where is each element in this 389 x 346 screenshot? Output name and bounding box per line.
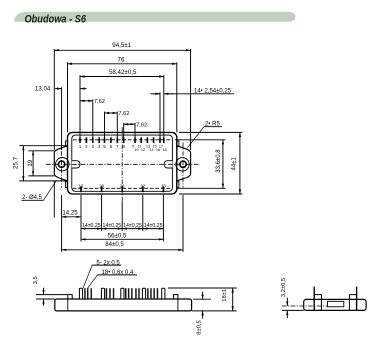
dim 94,5±1 (54, 49, 190, 51)
front wide pins (5x 2x0,5) (79, 288, 164, 299)
side centerline (282, 305, 328, 307)
dim 13,04 (55, 88, 62, 90)
horizontal centerline (46, 163, 199, 165)
right mounting ear (177, 146, 191, 181)
svg-text:3: 3 (92, 144, 95, 149)
dim 7,62 a (80, 100, 93, 102)
svg-text:84±0,5: 84±0,5 (105, 241, 124, 248)
dim 33,6±0,8 (222, 140, 224, 189)
pin numbers 9-18 (132, 144, 167, 152)
dim 25,7 (22, 146, 24, 181)
svg-text:20: 20 (99, 183, 104, 188)
svg-text:7: 7 (116, 144, 119, 149)
lid right key notch (164, 161, 172, 168)
side pin left (313, 287, 315, 311)
dim 44±1 (239, 132, 241, 194)
side recess (328, 301, 344, 307)
right side latch bottom (177, 182, 179, 188)
svg-text:7,62: 7,62 (136, 122, 147, 128)
dim 3,5 (36, 294, 67, 296)
extension lines bottom (54, 181, 183, 252)
pin numbers 1-8 (79, 144, 126, 149)
lid left key notch (72, 161, 80, 168)
left side latch top (65, 141, 67, 147)
top pin ticks (pins 1-18) (80, 137, 164, 143)
bottom pin row hidden line (73, 187, 172, 189)
svg-text:2: 2 (85, 144, 88, 149)
dim 14- 2,54±0,25 (151, 93, 161, 95)
left boss circle (56, 158, 69, 171)
left mounting hole (58, 161, 64, 167)
dim 19 (32, 151, 34, 176)
svg-text:8: 8 (123, 144, 126, 149)
svg-text:14: 14 (149, 148, 153, 152)
dim 56±0,5 (81, 238, 163, 240)
dim 7,62 c (124, 123, 135, 125)
dim 58,42±0,5 (80, 76, 164, 78)
right mounting hole (180, 161, 186, 167)
svg-text:14±0,25: 14±0,25 (82, 223, 101, 229)
svg-text:23: 23 (161, 183, 166, 188)
dim 14,25 (62, 216, 81, 218)
left side latch bottom (65, 182, 67, 188)
svg-text:13,04: 13,04 (35, 86, 51, 93)
svg-text:14• 2,54±0,25: 14• 2,54±0,25 (194, 88, 232, 94)
dim 3,2±0,5 (282, 309, 304, 311)
svg-text:58,42±0,5: 58,42±0,5 (109, 69, 137, 76)
right hole centerline (182, 143, 184, 188)
svg-text:7,62: 7,62 (94, 99, 105, 105)
svg-text:18: 18 (162, 148, 166, 152)
dim 7,62 b (105, 112, 118, 114)
svg-text:1: 1 (79, 144, 82, 149)
front view flange lines (67, 299, 69, 311)
svg-text:94,5±1: 94,5±1 (112, 42, 131, 49)
front left boss (68, 295, 72, 299)
svg-text:44±1: 44±1 (231, 156, 237, 170)
dim 84±0,5 (62, 249, 183, 251)
svg-text:19: 19 (27, 159, 34, 166)
svg-text:14±0,25: 14±0,25 (144, 223, 163, 229)
pin numbers 19-23 (79, 183, 167, 188)
svg-text:18±1: 18±1 (222, 289, 228, 302)
svg-text:4: 4 (98, 144, 101, 149)
extension lines left (19, 146, 67, 181)
svg-text:Obudowa - S6: Obudowa - S6 (25, 14, 87, 26)
left mounting ear (54, 146, 67, 181)
extension lines top (54, 49, 190, 150)
svg-text:22: 22 (140, 183, 145, 188)
svg-text:33,6±0,8: 33,6±0,8 (216, 149, 222, 173)
svg-text:10: 10 (134, 148, 138, 152)
svg-text:5: 5 (103, 144, 106, 149)
svg-text:8±0,5: 8±0,5 (197, 320, 203, 334)
lid step outline (72, 135, 173, 191)
svg-text:25,7: 25,7 (13, 156, 20, 169)
front view body (55, 299, 192, 311)
svg-text:14,25: 14,25 (62, 210, 78, 217)
svg-text:12: 12 (141, 148, 145, 152)
svg-text:76: 76 (118, 56, 125, 63)
right boss circle (176, 158, 189, 171)
svg-text:3,2±0,5: 3,2±0,5 (281, 278, 287, 297)
svg-text:56±0,5: 56±0,5 (108, 232, 127, 239)
header bar (14, 12, 295, 22)
right side latch top (177, 141, 179, 147)
side pin right (356, 287, 358, 311)
svg-text:16: 16 (156, 148, 160, 152)
svg-text:19: 19 (79, 183, 84, 188)
front right boss (174, 295, 178, 299)
top pin row hidden line (73, 139, 172, 141)
svg-text:3,5: 3,5 (33, 276, 39, 284)
front narrow pins (18x 0,6x0,4) (84, 288, 158, 299)
dim chain 14±0,25 x4 (81, 223, 163, 230)
side right boss (349, 294, 356, 296)
vertical centerline (121, 127, 123, 201)
bottom pin ticks (pins 19-23) (81, 186, 163, 192)
side view body (304, 299, 366, 310)
left hole centerline (61, 143, 63, 188)
svg-text:6: 6 (110, 144, 113, 149)
side left boss (314, 294, 321, 296)
svg-text:7,62: 7,62 (118, 111, 129, 117)
svg-text:14±0,25: 14±0,25 (123, 223, 142, 229)
extension lines right (175, 132, 242, 194)
svg-text:14±0,25: 14±0,25 (103, 223, 122, 229)
module body outline (68, 132, 177, 194)
dim 8±0,5 (193, 298, 211, 300)
dim 18±1 (168, 287, 237, 289)
dim 76 (68, 63, 177, 65)
